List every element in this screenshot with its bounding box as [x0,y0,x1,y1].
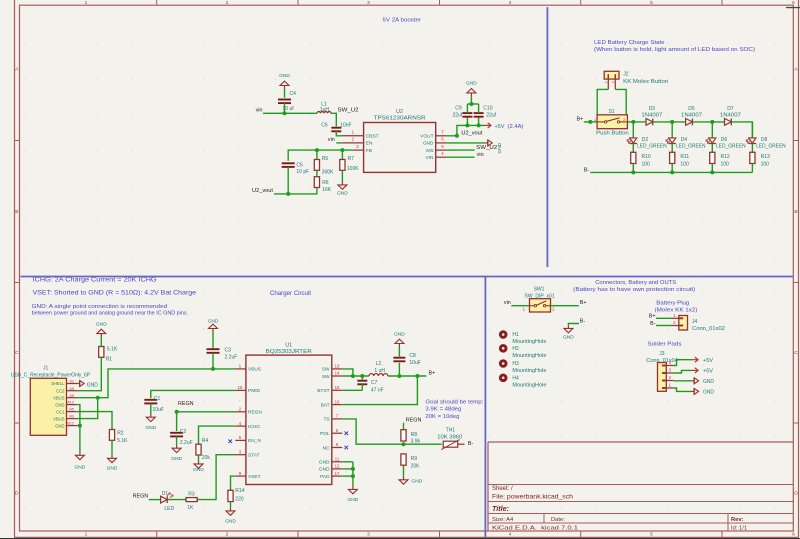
wire bottom rail [590,171,752,173]
wire [284,103,286,113]
svg-text:B+: B+ [580,300,587,306]
wire [656,325,672,327]
power symbol GND (C2) [176,445,178,448]
svg-text:R3: R3 [188,492,195,498]
pin 8 NC [332,447,343,449]
svg-text:File: powerbank.kicad_sch: File: powerbank.kicad_sch [492,495,573,501]
wire CC2 [77,357,101,390]
svg-text:SW: SW [322,374,330,380]
power symbol GND (above C9/C10) [470,93,472,96]
wire [446,156,474,158]
svg-text:(Molex KK 1x2): (Molex KK 1x2) [655,307,698,313]
svg-text:VBUS: VBUS [53,395,65,400]
wire [511,305,529,307]
pin 3 STAT [235,454,246,456]
junction [469,102,473,106]
svg-text:H2: H2 [512,346,519,352]
resistor R4 20k [196,444,201,455]
svg-text:BQ25303JRTER: BQ25303JRTER [266,349,312,355]
svg-text:GND: GND [563,334,574,340]
svg-text:5.1K: 5.1K [107,347,118,353]
svg-text:REGN: REGN [133,494,149,500]
wire VSET [231,476,236,490]
svg-text:ICHG: 2A Charge Current = 20K: ICHG: 2A Charge Current = 20K ICHG [33,276,157,283]
junction [477,123,481,127]
wire +5V out 2 [673,370,691,373]
svg-text:10nF: 10nF [340,123,351,129]
junction [631,120,635,124]
junction [710,170,714,174]
wire CC1 [77,412,112,430]
junction [351,474,355,478]
svg-text:SHELL: SHELL [51,381,65,386]
svg-text:MountingHole: MountingHole [512,368,546,374]
wire BTST [342,389,362,391]
junction [397,374,401,378]
resistor R8 3.9k [401,430,406,441]
svg-text:2.2uF: 2.2uF [225,354,238,360]
svg-text:B9: B9 [69,415,74,419]
wire [632,144,634,153]
svg-text:15: 15 [335,385,340,390]
no-connect EN_N [228,440,232,444]
power symbol GND (R14) [230,508,232,511]
junction [360,374,364,378]
wire [671,164,673,173]
svg-text:300K: 300K [322,169,334,175]
wire GND out 2 [673,388,691,391]
pin 3 FB [353,149,364,151]
svg-text:J2: J2 [623,72,629,78]
svg-text:12: 12 [335,464,340,469]
wire STAT [197,455,235,500]
pin 7 VOUT [436,135,447,137]
svg-text:VBUS: VBUS [248,367,261,373]
svg-text:VOUT: VOUT [420,134,433,140]
power symbol GND (R9) [403,477,405,480]
svg-text:R14: R14 [235,488,244,494]
svg-text:GND: GND [74,465,85,471]
svg-text:U2_vout: U2_vout [252,188,274,194]
wire [751,164,753,173]
wire [230,502,232,508]
svg-text:100: 100 [680,162,689,168]
mounting hole H2 [499,344,508,353]
pin 4 VIN [436,156,447,158]
svg-text:GND: GND [319,460,330,466]
section divider line horizontal [21,276,794,278]
wire [176,412,178,431]
svg-text:Connectors, Battery and OUTS: Connectors, Battery and OUTS [595,280,676,286]
resistor R1 5.1K [99,347,104,358]
svg-text:SW_U2: SW_U2 [338,108,359,114]
wire [632,122,634,138]
svg-text:47 nF: 47 nF [371,387,384,393]
svg-text:GND: GND [208,318,219,324]
svg-text:Charger Circuit: Charger Circuit [270,290,311,297]
svg-text:GND: GND [87,382,98,388]
wire [597,89,608,114]
svg-text:R1: R1 [106,357,113,363]
svg-text:H3: H3 [512,361,519,367]
wire [150,403,152,414]
svg-text:1 uH: 1 uH [374,368,385,374]
resistor R2 5.1K [109,430,114,441]
svg-text:10 pF: 10 pF [296,169,309,175]
wire GND pins U1 [342,461,353,463]
svg-text:B-: B- [584,167,590,173]
pin 6 EN_N [235,439,246,441]
IC U1 BQ25303JRTER [246,355,332,484]
section divider line vertical top [546,7,548,267]
svg-text:1N4007: 1N4007 [720,112,741,118]
wire [671,144,673,153]
svg-text:vin: vin [504,300,511,306]
svg-text:Id: 1/1: Id: 1/1 [731,525,747,531]
global label GND (SHELL) [77,383,79,385]
svg-text:GND: GND [193,467,204,473]
resistor R10 100 [631,152,636,163]
capacitor C6 [331,127,341,129]
svg-text:D7: D7 [727,106,734,112]
power symbol GND (above C4) [284,86,286,89]
svg-text:H4: H4 [512,375,519,381]
svg-text:20k: 20k [202,455,211,461]
svg-text:vin: vin [328,137,335,143]
svg-text:100: 100 [721,162,730,168]
svg-text:100K: 100K [347,166,359,172]
capacitor C3 [207,348,220,350]
LED D8 LED_GREEN [749,138,756,143]
svg-text:B+: B+ [429,370,436,376]
inductor L1 [317,112,331,114]
mounting hole H4 [499,374,508,383]
wire FB net [288,150,353,161]
svg-text:GND: GND [171,456,182,462]
wire [176,436,178,445]
wire [284,89,286,98]
resistor R12 100 [710,152,715,163]
junction [670,170,674,174]
wire [287,167,289,194]
svg-text:C5: C5 [296,162,303,168]
svg-text:LED_GREEN: LED_GREEN [637,143,667,149]
svg-text:GND: GND [347,497,358,503]
junction [315,148,319,152]
svg-text:20K = 10deg: 20K = 10deg [425,414,459,420]
svg-text:10uF: 10uF [409,360,420,366]
svg-text:5V 2A booster: 5V 2A booster [383,18,422,24]
pin 17 PAD [332,475,343,477]
wire [671,122,673,138]
diode D7 1N4007 [725,119,732,126]
svg-text:5.1K: 5.1K [117,438,128,444]
svg-text:13: 13 [335,364,340,369]
wire GND out 1 [673,380,691,382]
svg-text:R5: R5 [322,156,329,162]
section divider line vertical bottom [484,277,486,538]
svg-text:CC2: CC2 [56,388,65,393]
junction [588,120,592,124]
svg-text:D6: D6 [721,137,728,143]
wire BAT [342,376,417,405]
svg-text:C1: C1 [154,396,161,402]
wire [568,324,579,326]
svg-text:5: 5 [650,532,653,538]
svg-text:GND: GND [55,402,64,407]
svg-text:GND: GND [703,390,714,396]
svg-text:GND: GND [96,321,107,327]
IC U2 TPS61230ARNSR [364,123,436,173]
svg-text:J4: J4 [692,319,698,325]
wire [446,125,484,135]
svg-text:3.9K = 48deg: 3.9K = 48deg [425,407,461,413]
svg-text:GND: GND [497,142,503,153]
power symbol GND (C1) [150,414,152,417]
svg-text:2: 2 [226,532,229,538]
svg-text:GND: GND [319,467,330,473]
svg-text:1: 1 [85,532,88,538]
capacitor C4 [278,99,291,101]
svg-text:CC1: CC1 [56,409,65,414]
pin 12 GND [332,468,343,470]
power symbol GND (above C3) [212,329,214,332]
svg-text:S1: S1 [69,380,74,384]
svg-text:LED: LED [164,506,174,512]
svg-text:MountingHole: MountingHole [512,339,546,345]
wire [615,89,626,114]
resistor R13 100 [750,152,755,163]
svg-text:C7: C7 [371,380,378,386]
junction [415,374,419,378]
svg-text:L2: L2 [376,361,382,367]
resistor R6 [314,177,319,188]
svg-text:VBUS: VBUS [53,416,65,421]
no-connect NC [345,446,349,450]
mounting hole H1 [499,330,508,339]
svg-text:Rev:: Rev: [731,517,744,523]
svg-text:R11: R11 [680,154,689,160]
svg-text:B-: B- [468,441,474,447]
pin 5 SW [436,149,447,151]
junction [351,374,355,378]
wire GND pins [77,405,80,453]
capacitor C7 47nF [361,376,363,380]
svg-text:1N4007: 1N4007 [681,112,702,118]
junction [78,424,82,428]
svg-text:LED_GREEN: LED_GREEN [676,143,706,149]
svg-text:+5V: +5V [495,124,505,130]
svg-text:KK Molex Button: KK Molex Button [623,79,668,85]
svg-text:REGN: REGN [248,410,262,416]
svg-text:TPS61230ARNSR: TPS61230ARNSR [374,116,426,122]
wire [731,122,752,138]
svg-text:VSET: Shorted to GND (R = 510Ω: VSET: Shorted to GND (R = 510Ω): 4.2V Ba… [33,290,197,297]
svg-text:between power ground and analo: between power ground and analog ground n… [32,310,189,316]
inductor L2 1uH [369,374,388,376]
junction [455,134,459,138]
power symbol GND (R2) [111,455,113,458]
junction [465,123,469,127]
wire [656,317,672,319]
svg-text:BAT: BAT [321,402,330,408]
svg-text:C3: C3 [225,348,232,354]
power symbol GND (B-) [567,325,569,328]
power symbol GND (above R1) [100,334,102,337]
svg-text:1K: 1K [187,505,194,511]
svg-text:PAD: PAD [320,474,330,480]
svg-text:CBST: CBST [366,134,379,140]
svg-text:SW: SW [426,148,434,154]
svg-text:TH1: TH1 [446,428,456,434]
pin 6 GND [436,142,447,144]
svg-text:D1: D1 [162,491,169,497]
svg-text:+5V: +5V [703,358,713,364]
svg-text:Battery Plug: Battery Plug [656,300,689,306]
svg-text:GND: GND [55,423,64,428]
svg-text:LED_GREEN: LED_GREEN [756,143,786,149]
power symbol GND (C8) [398,344,400,347]
svg-text:10uF: 10uF [153,407,164,413]
wire [100,337,102,347]
svg-text:B+: B+ [576,117,583,123]
junction [351,467,355,471]
wire [212,353,214,369]
svg-text:16: 16 [238,385,243,390]
svg-text:GND: GND [337,190,348,196]
svg-text:2: 2 [226,0,229,6]
wire [341,170,343,182]
wire [711,164,713,173]
svg-text:REGN: REGN [178,401,194,407]
svg-text:B-: B- [580,319,586,325]
svg-text:D2: D2 [642,137,649,143]
svg-text:EN_N: EN_N [248,438,261,444]
svg-text:B+: B+ [649,314,656,320]
svg-text:vin: vin [477,152,484,158]
svg-text:GND: GND [423,141,434,147]
svg-text:ICHG: ICHG [248,424,260,430]
junction [211,367,215,371]
svg-text:D: D [794,491,798,497]
LED D2 LED_GREEN [630,138,637,143]
wire [403,465,405,477]
svg-text:USB_C_Receptacle_PowerOnly_6P: USB_C_Receptacle_PowerOnly_6P [11,372,91,378]
svg-text:R2: R2 [117,431,124,437]
wire TS [342,419,442,444]
svg-text:B12: B12 [67,422,74,426]
pin 15 BTST [332,389,343,391]
wire [466,104,468,113]
svg-text:B5: B5 [69,408,74,412]
svg-text:R13: R13 [761,154,770,160]
svg-text:5: 5 [650,0,653,6]
svg-text:14: 14 [335,371,340,376]
svg-text:Title:: Title: [492,504,510,513]
wire [212,332,214,350]
wire [336,131,342,136]
svg-text:VSET: VSET [248,474,261,480]
pin 10 BAT [332,404,343,406]
pin 2 REGN [235,411,246,413]
svg-text:S1: S1 [608,109,614,115]
svg-text:D3: D3 [649,106,656,112]
wire [263,112,317,114]
junction [283,111,287,115]
resistor R7 [341,150,343,159]
svg-text:GND: GND [279,73,290,79]
svg-text:1uH: 1uH [320,107,330,113]
svg-text:2.2uF: 2.2uF [180,440,193,446]
mounting hole H3 [499,359,508,368]
capacitor C5 [282,162,295,164]
junction [670,120,674,124]
wire [111,440,113,455]
svg-text:100: 100 [642,162,651,168]
junction [340,148,344,152]
svg-text:C6: C6 [321,123,328,129]
svg-text:SW: SW [322,367,330,373]
svg-text:R12: R12 [721,154,730,160]
svg-text:MountingHole: MountingHole [512,382,546,388]
svg-text:GND: A single point connection: GND: A single point connection is recomm… [32,304,168,310]
diode D5 1N4007 [686,119,693,126]
junction [402,442,406,446]
capacitor C1 10uF [144,399,157,401]
wire [653,121,686,123]
svg-text:U2_vout: U2_vout [461,130,483,136]
svg-text:B: B [15,209,18,215]
power symbol GND (U1) [352,486,354,489]
wire SW13 [342,369,353,376]
svg-text:vin: vin [256,108,263,114]
svg-text:1N4007: 1N4007 [641,112,662,118]
pin 7 TS [332,418,343,420]
wire [711,144,713,153]
svg-text:VIN: VIN [426,155,435,161]
svg-text:GND: GND [466,81,477,87]
svg-text:6: 6 [792,532,795,538]
svg-text:LED Battery Charge State: LED Battery Charge State [594,40,665,46]
no-connect POL [345,431,349,435]
svg-text:Date:: Date: [551,517,565,523]
wire [551,305,579,307]
junction [631,170,635,174]
resistor R5 [316,150,318,159]
resistor R11 100 [670,152,675,163]
svg-text:NC: NC [323,445,330,451]
svg-text:R7: R7 [348,156,355,162]
svg-text:EN: EN [366,141,373,147]
svg-text:R10: R10 [642,154,651,160]
svg-text:FB: FB [366,148,372,154]
wire VBUS [77,369,235,398]
wire PMID [151,390,236,398]
svg-text:GND: GND [225,518,236,524]
wire [149,499,161,501]
svg-text:PMID: PMID [248,388,261,394]
svg-text:220: 220 [235,497,244,503]
wire [388,375,427,377]
hier label +5V (1) [691,359,698,361]
wire ICHG [199,426,236,444]
capacitor C9 [462,112,472,114]
wire [403,423,405,430]
wire [711,122,713,138]
wire [692,121,724,123]
svg-text:+5V: +5V [703,369,713,375]
svg-text:3: 3 [367,0,370,6]
